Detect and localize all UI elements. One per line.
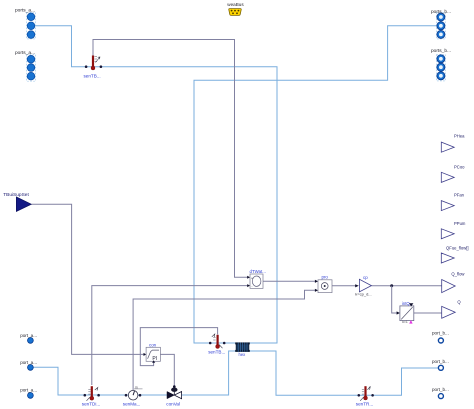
- svg-text:ports_a...: ports_a...: [15, 8, 35, 14]
- wire signal senTDis to dTWat in2: [92, 286, 248, 385]
- weaBus connector: [227, 2, 244, 15]
- output PHea: [441, 134, 465, 153]
- wire signal junction to intQ: [392, 286, 398, 313]
- svg-text:senTB...: senTB...: [208, 350, 225, 355]
- output QFue_flow: [441, 245, 468, 263]
- svg-text:m: m: [135, 385, 138, 389]
- output Q_flow: [442, 271, 466, 292]
- sensor senTDis (thermometer bottom-left): [82, 386, 100, 406]
- block intQ (triggered sampler): [397, 301, 414, 324]
- svg-text:PCoo: PCoo: [454, 164, 465, 169]
- sensor senTRet (thermometer on return line, unconnected): [356, 386, 374, 406]
- svg-text:dTWat...: dTWat...: [250, 269, 266, 274]
- sensor senTBuiRet (bottom thermometer): [208, 334, 225, 355]
- svg-text:senTB...: senTB...: [84, 74, 101, 79]
- input TBuiSupSet: [3, 192, 31, 211]
- port_b single 1 (bottom-right): [432, 331, 449, 343]
- svg-text:port_a...: port_a...: [20, 388, 37, 393]
- wire fluid hex left-top to senTBuiRet to riser x194 to ports_b1: [194, 26, 437, 343]
- svg-text:PPum: PPum: [454, 221, 466, 226]
- svg-text:PFan: PFan: [454, 193, 465, 198]
- svg-text:port_a...: port_a...: [20, 333, 37, 338]
- wire signal con out to conVal actuator: [160, 354, 174, 387]
- ports_b group 2: [431, 48, 451, 81]
- svg-text:port_b...: port_b...: [432, 331, 449, 336]
- svg-text:QFue_flow[]: QFue_flow[]: [446, 245, 469, 250]
- wire signal cp gain out to Q_flow output: [371, 285, 441, 287]
- wire signal TBuiSupSet to con: [32, 204, 146, 354]
- block cp (gain): [355, 275, 371, 297]
- block pro (product): [315, 275, 332, 293]
- svg-text:k=cp_d...: k=cp_d...: [355, 291, 371, 296]
- svg-text:senMa...: senMa...: [123, 401, 141, 406]
- block con (PI controller): [144, 343, 161, 363]
- svg-text:cp: cp: [363, 275, 368, 280]
- wire signal pro out to cp gain: [332, 285, 356, 287]
- output PFan: [441, 193, 464, 211]
- svg-text:conVal: conVal: [166, 401, 180, 406]
- wire signal intQ out to Q output: [414, 312, 442, 314]
- output Q: [442, 300, 462, 319]
- port_a single 3: [20, 388, 37, 399]
- svg-text:port_a...: port_a...: [20, 360, 37, 365]
- svg-text:k=1: k=1: [402, 320, 408, 324]
- svg-text:senTR...: senTR...: [356, 401, 373, 406]
- block dTWat (subtract): [247, 269, 266, 289]
- wire fluid ports_a1 to senTBuiSup to hex right-top: [35, 26, 277, 343]
- svg-text:Q_flow: Q_flow: [451, 271, 465, 276]
- wire signal senTBuiRet to con u_m feedback: [140, 328, 217, 366]
- svg-text:con: con: [149, 343, 157, 348]
- svg-text:+: +: [251, 276, 253, 280]
- port_a single 1 (bottom-left): [20, 333, 37, 343]
- svg-text:port_b...: port_b...: [432, 387, 449, 392]
- ports_a group 1 (3 fluid inlets top-left): [15, 8, 35, 39]
- output PCoo: [441, 164, 465, 182]
- hex heat exchanger: [235, 342, 250, 357]
- svg-text:weaBus: weaBus: [227, 2, 244, 7]
- ports_b group 1 (3 fluid outlets top-right): [431, 9, 451, 39]
- output PPum: [441, 221, 466, 239]
- sensor senTBuiSup (top thermometer): [84, 56, 103, 79]
- wire fluid hex right-bottom to port_b2: [250, 351, 439, 395]
- svg-text:hex: hex: [239, 352, 247, 357]
- wire signal senMas to pro in2: [133, 290, 316, 390]
- wire signal dTWat out to pro in1: [263, 280, 316, 282]
- node junction dot: [390, 284, 393, 287]
- svg-text:PHea: PHea: [454, 134, 465, 139]
- svg-text:ports_a...: ports_a...: [15, 50, 35, 56]
- valve conVal: [166, 388, 181, 407]
- svg-text:PI: PI: [152, 356, 157, 362]
- sensor senMasFlo (mass flow gauge): [123, 385, 143, 406]
- svg-text:senTDi...: senTDi...: [82, 401, 100, 406]
- port_a single 2: [20, 360, 37, 370]
- svg-text:ports_b...: ports_b...: [431, 9, 451, 15]
- svg-text:ports_b...: ports_b...: [431, 48, 451, 54]
- port_b single 3: [432, 387, 449, 399]
- svg-text:intQ: intQ: [402, 301, 410, 306]
- wire fluid conVal to hex left-bottom: [182, 351, 236, 395]
- port_b single 2: [432, 359, 449, 371]
- wire fluid port_a2 to senTDis senMas conVal: [33, 367, 167, 395]
- wire signal senTBuiSup to dTWat in1: [93, 40, 248, 278]
- svg-text:port_b...: port_b...: [432, 359, 449, 364]
- svg-text:pro: pro: [322, 275, 329, 280]
- svg-text:-: -: [251, 285, 252, 289]
- ports_a group 2: [15, 50, 35, 81]
- svg-text:TBuiSupSet: TBuiSupSet: [3, 192, 29, 198]
